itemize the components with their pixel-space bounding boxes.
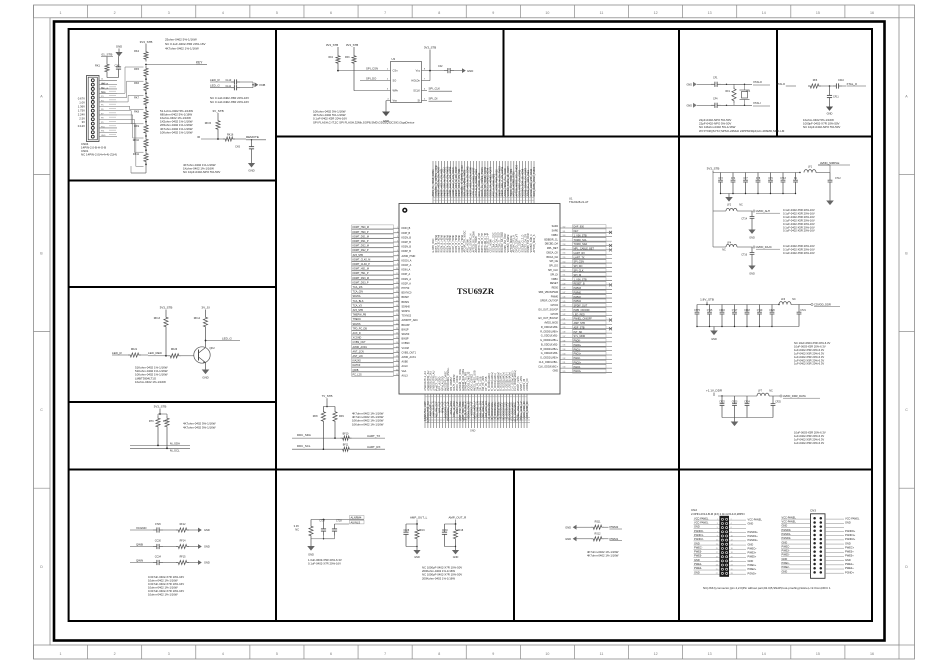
svg-text:SPI_DI: SPI_DI [429, 97, 438, 101]
svg-text:GND: GND [248, 169, 254, 173]
svg-text:01_STB: 01_STB [102, 53, 113, 57]
svg-text:CF18: CF18 [744, 310, 750, 312]
svg-text:3V_STB: 3V_STB [212, 109, 223, 113]
svg-text:0.1uF-0402-X5R 20%-16V: 0.1uF-0402-X5R 20%-16V [783, 218, 815, 222]
svg-text:EX_OUT_BIO/GP: EX_OUT_BIO/GP [538, 317, 558, 320]
svg-text:WYJTXZQSYSY,SPSO-24MHz 24PPM/3: WYJTXZQSYSY,SPSO-24MHz 24PPM/30pF,HC-49S… [699, 129, 785, 133]
svg-text:146: 146 [563, 296, 566, 298]
svg-text:AVDDHT_ADC: AVDDHT_ADC [402, 319, 419, 322]
svg-text:EX_OUT_SIO/GP: EX_OUT_SIO/GP [538, 308, 558, 311]
svg-text:KDCN_A: KDCN_A [402, 259, 412, 262]
svg-text:CT26: CT26 [155, 523, 162, 526]
node KEY [145, 64, 147, 66]
svg-text:PANEL_ON/OFF: PANEL_ON/OFF [574, 318, 593, 321]
svg-text:9: 9 [717, 536, 718, 538]
svg-text:Vss: Vss [393, 99, 398, 103]
spi flash U3 body [391, 62, 422, 103]
svg-text:GND: GND [782, 540, 788, 544]
svg-text:PAD3-: PAD3- [574, 366, 581, 369]
svg-text:4: 4 [731, 523, 732, 525]
svg-text:18: 18 [396, 305, 398, 307]
wire xtali [721, 104, 752, 106]
svg-text:GND: GND [101, 92, 106, 94]
net SPI_DI [422, 100, 428, 102]
svg-text:4: 4 [222, 652, 224, 656]
svg-text:4: 4 [397, 241, 398, 243]
resistor RS30 [310, 520, 312, 525]
svg-text:KDMT_HS0_M: KDMT_HS0_M [353, 226, 369, 229]
svg-text:15: 15 [716, 548, 718, 550]
svg-text:KEY: KEY [196, 61, 203, 65]
svg-text:D: D [40, 565, 43, 569]
svg-text:13: 13 [716, 544, 718, 546]
svg-text:144: 144 [563, 305, 566, 307]
svg-text:PWE3+: PWE3+ [748, 551, 757, 555]
ground audio [310, 545, 312, 548]
svg-text:CT7: CT7 [743, 178, 748, 180]
net LED_RED [141, 354, 148, 356]
svg-text:18: 18 [731, 552, 733, 554]
svg-text:KD2P_A: KD2P_A [402, 282, 412, 285]
svg-text:PWE2+: PWE2+ [845, 566, 854, 570]
svg-text:LED_G: LED_G [210, 84, 221, 88]
svg-text:CLK_ODD/LVBC-: CLK_ODD/LVBC- [539, 361, 558, 364]
svg-text:3V_SI: 3V_SI [201, 306, 209, 310]
svg-text:PWE5+: PWE5+ [845, 554, 854, 558]
svg-text:PWE5+: PWE5+ [748, 555, 757, 559]
ground CT12 [829, 199, 831, 202]
svg-text:SPI FLASH,C-IT,2C SPI FLASH,32: SPI FLASH,C-IT,2C SPI FLASH,32Mb,SOP8,SM… [313, 120, 415, 124]
svg-text:CST5: CST5 [694, 310, 701, 312]
svg-text:NC: NC [739, 204, 743, 207]
wire ddr bottom bus [697, 326, 772, 328]
svg-text:6: 6 [330, 11, 332, 15]
svg-text:1uF-0402-X5R 20%-6.3V: 1uF-0402-X5R 20%-6.3V [794, 351, 824, 355]
svg-text:KDMT_HS1_M: KDMT_HS1_M [353, 268, 369, 271]
svg-text:QWB: QWB [136, 542, 143, 546]
svg-text:G_ODD2/LVB3+: G_ODD2/LVB3+ [540, 357, 558, 360]
svg-text:AVDD_HSID: AVDD_HSID [402, 255, 416, 258]
ground CT14 [751, 228, 753, 231]
svg-text:LED_RED: LED_RED [148, 351, 163, 355]
svg-text:150: 150 [563, 279, 566, 281]
svg-text:PWM2: PWM2 [574, 296, 582, 299]
svg-text:KDIN_A: KDIN_A [402, 269, 411, 272]
svg-text:0.1uF-0402-X5R 20%-16V: 0.1uF-0402-X5R 20%-16V [783, 208, 815, 212]
svg-text:1: 1 [60, 652, 62, 656]
svg-text:7: 7 [397, 254, 398, 256]
svg-text:5: 5 [276, 11, 278, 15]
svg-text:6: 6 [731, 527, 732, 529]
svg-text:136: 136 [563, 340, 566, 342]
svg-text:1uF-0402-X5R 20%-6.3V: 1uF-0402-X5R 20%-6.3V [794, 348, 824, 352]
svg-text:3V3_STB: 3V3_STB [326, 43, 338, 47]
svg-text:2: 2 [731, 519, 732, 521]
svg-text:22: 22 [731, 561, 733, 563]
svg-text:KDIP_B: KDIP_B [402, 232, 411, 235]
wire vcc [422, 70, 445, 72]
svg-text:10uF-0603-X5R 20%-6.3V: 10uF-0603-X5R 20%-6.3V [794, 431, 826, 435]
svg-text:PGND2+: PGND2+ [845, 537, 856, 541]
svg-text:0.1uF-0402-X5R 20%-16V: 0.1uF-0402-X5R 20%-16V [783, 225, 815, 229]
svg-text:SPDIF_OUT: SPDIF_OUT [574, 305, 588, 308]
svg-text:PGND1+: PGND1+ [845, 533, 856, 537]
svg-text:SBK_VBUS/PWM: SBK_VBUS/PWM [538, 291, 558, 294]
svg-text:8: 8 [731, 531, 732, 533]
svg-text:RS12: RS12 [595, 532, 602, 535]
svg-text:PC_L2S: PC_L2S [353, 373, 362, 376]
svg-text:BDYNC0: BDYNC0 [402, 292, 413, 295]
svg-text:1uF-0402-X5R 20%-6.3V: 1uF-0402-X5R 20%-6.3V [794, 441, 824, 445]
svg-text:19: 19 [396, 310, 398, 312]
svg-text:AVDD_DDR_DATA: AVDD_DDR_DATA [783, 394, 806, 398]
svg-text:7: 7 [384, 652, 386, 656]
svg-text:LVDS_GND_00: LVDS_GND_00 [526, 401, 529, 419]
svg-text:PWE2+: PWE2+ [748, 567, 757, 571]
svg-text:GND: GND [414, 556, 420, 559]
svg-text:0.1uF-0402-X5R 20%-16V: 0.1uF-0402-X5R 20%-16V [783, 251, 815, 255]
svg-text:KIA2X0: KIA2X0 [353, 360, 362, 363]
svg-text:CX6: CX6 [235, 146, 240, 149]
wire RF3 to wpn [353, 66, 355, 91]
svg-text:TCA_I2S: TCA_I2S [353, 286, 363, 289]
svg-text:GPIO5: GPIO5 [551, 313, 559, 316]
svg-text:QK2: QK2 [210, 346, 216, 350]
svg-text:KDMT_HS0_P: KDMT_HS0_P [353, 231, 369, 234]
svg-text:161: 161 [563, 231, 566, 233]
svg-text:PAD2-: PAD2- [574, 357, 581, 360]
svg-text:SPI_DI: SPI_DI [574, 274, 582, 277]
svg-text:17: 17 [716, 552, 718, 554]
svg-text:6: 6 [397, 250, 398, 252]
ground xtal2 [829, 102, 831, 107]
svg-text:CT14: CT14 [741, 219, 747, 221]
svg-text:LF1: LF1 [808, 166, 813, 169]
svg-text:140: 140 [563, 323, 566, 325]
svg-text:RK6: RK6 [134, 82, 139, 85]
net QWB [130, 546, 153, 548]
svg-text:16: 16 [396, 296, 398, 298]
wire AMP_OUT_L bottom [406, 546, 417, 548]
svg-text:UART_RX: UART_RX [574, 252, 586, 255]
svg-text:ADF_STB: ADF_STB [574, 326, 585, 329]
net QWN [130, 562, 153, 564]
svg-text:1Kohm-0402 1%-1/16W: 1Kohm-0402 1%-1/16W [135, 380, 166, 384]
svg-text:GND: GND [470, 430, 476, 433]
svg-text:PGND0-: PGND0- [694, 529, 704, 533]
svg-text:3V3_STB: 3V3_STB [353, 254, 364, 257]
svg-text:RESET_B: RESET_B [574, 283, 585, 286]
svg-text:3V3_STB: 3V3_STB [353, 309, 364, 312]
svg-text:HOLDn: HOLDn [411, 79, 420, 83]
svg-text:PWEC-: PWEC- [694, 545, 703, 549]
svg-text:GND: GND [204, 545, 210, 549]
svg-text:LED_G: LED_G [222, 337, 233, 341]
svg-text:SPI_CLK: SPI_CLK [429, 87, 441, 91]
svg-text:10ohm-0402 1%-1/16W: 10ohm-0402 1%-1/16W [148, 593, 178, 597]
svg-text:VCC-PANEL: VCC-PANEL [694, 520, 709, 524]
svg-text:138: 138 [563, 332, 566, 334]
svg-text:19: 19 [716, 556, 718, 558]
svg-text:RK5: RK5 [134, 68, 139, 71]
svg-text:PHY50: PHY50 [402, 287, 410, 290]
svg-text:TCA_BLS: TCA_BLS [353, 300, 364, 303]
net XTAL_O [842, 85, 846, 87]
svg-text:TOMO_SDA: TOMO_SDA [574, 243, 588, 246]
svg-text:SCLK: SCLK [413, 89, 420, 93]
svg-text:R_ODD0/LVB0+: R_ODD0/LVB0+ [540, 330, 558, 333]
svg-text:200Kohm-0402 1%-1/16W: 200Kohm-0402 1%-1/16W [422, 576, 455, 580]
svg-text:KD2N_B: KD2N_B [402, 236, 412, 239]
svg-text:GND: GND [782, 524, 788, 528]
ground QWN filter [198, 560, 202, 565]
svg-text:9: 9 [492, 652, 494, 656]
ground KNB arrow [255, 82, 259, 87]
svg-text:24: 24 [731, 565, 733, 567]
svg-text:KDIN_B: KDIN_B [402, 227, 411, 230]
svg-text:BIN1P: BIN1P [402, 328, 409, 331]
svg-text:TMEPW_PB: TMEPW_PB [353, 314, 367, 317]
svg-text:145: 145 [563, 301, 566, 303]
svg-text:10: 10 [545, 652, 549, 656]
svg-text:NC 0.1uF-0402-X5R 20%-16V: NC 0.1uF-0402-X5R 20%-16V [210, 100, 249, 104]
wire ddrdata top bus [718, 395, 757, 397]
net SPI_CLK [422, 90, 428, 92]
svg-text:QWB: QWB [353, 369, 359, 372]
net CDVDD_DDR [811, 303, 813, 305]
svg-text:SPI_DO: SPI_DO [549, 265, 558, 268]
svg-text:AVDD_ALTI: AVDD_ALTI [756, 209, 770, 213]
svg-text:NC 10uF-0603-X5R 20%-6.3V: NC 10uF-0603-X5R 20%-6.3V [794, 341, 831, 345]
svg-text:RK1: RK1 [95, 64, 101, 68]
svg-text:27: 27 [716, 573, 718, 575]
svg-text:0.12V: 0.12V [78, 124, 85, 128]
svg-text:SDNH0: SDNH0 [402, 305, 411, 308]
svg-text:GND: GND [827, 112, 833, 116]
svg-text:14: 14 [396, 287, 398, 289]
svg-text:SPI_DI: SPI_DI [550, 273, 558, 276]
net UART_TX [352, 437, 386, 439]
svg-text:15: 15 [816, 11, 820, 15]
svg-text:16: 16 [870, 652, 874, 656]
svg-text:1: 1 [717, 519, 718, 521]
svg-text:RF14: RF14 [180, 539, 187, 542]
svg-text:16: 16 [731, 548, 733, 550]
svg-text:3: 3 [397, 236, 398, 238]
svg-text:159: 159 [563, 240, 566, 242]
svg-text:5: 5 [397, 245, 398, 247]
svg-text:PGND2+: PGND2+ [748, 538, 759, 542]
svg-text:7: 7 [384, 11, 386, 15]
svg-text:13: 13 [708, 652, 712, 656]
svg-text:CF4: CF4 [713, 98, 718, 101]
svg-text:AUL3: AUL3 [402, 374, 409, 377]
svg-text:PWM2: PWM2 [610, 525, 619, 529]
svg-text:GND: GND [453, 556, 459, 559]
wire AMP_OUT_R bottom [445, 546, 456, 548]
svg-text:SDV0S: SDV0S [353, 323, 361, 326]
wire avdd rail left [712, 173, 714, 248]
svg-text:LED_R: LED_R [210, 78, 221, 82]
svg-text:SPI_CSN: SPI_CSN [574, 261, 585, 264]
svg-text:SPI_CE: SPI_CE [549, 260, 558, 263]
svg-text:LVDSG_00: LVDSG_00 [526, 378, 529, 391]
CN01 pin stubs [99, 79, 117, 81]
svg-text:2: 2 [397, 231, 398, 233]
svg-text:0.1uF-0402-X5R 20%-16V: 0.1uF-0402-X5R 20%-16V [783, 211, 815, 215]
ground vcc cap [454, 70, 462, 72]
svg-text:PWM0: PWM0 [574, 291, 582, 294]
svg-text:RF8: RF8 [313, 415, 318, 418]
svg-text:GND: GND [202, 376, 208, 380]
svg-text:130: 130 [563, 367, 566, 369]
svg-text:3V3_STB: 3V3_STB [154, 405, 167, 409]
wire to cap CF10 [821, 85, 833, 87]
svg-text:1uF-0402-X5R 20%-6.3V: 1uF-0402-X5R 20%-6.3V [794, 437, 824, 441]
wire left pin rows [352, 225, 419, 378]
svg-text:12: 12 [654, 652, 658, 656]
svg-text:QWN: QWN [136, 558, 143, 562]
svg-text:NC(JXZJ),connector,(pin 4,2.0): NC(JXZJ),connector,(pin 4,2.0)Pin withou… [703, 586, 831, 590]
svg-text:KDIP_A: KDIP_A [402, 273, 411, 276]
ground ir filter [251, 153, 253, 163]
svg-text:CL10: CL10 [226, 79, 232, 82]
svg-text:XTAL_O: XTAL_O [847, 82, 858, 86]
connector CN3 body [811, 514, 826, 579]
svg-text:AYTDB_MD2_S: AYTDB_MD2_S [533, 234, 536, 252]
svg-text:NC 14PIN-2.0(4+4+4)-ZJ(4): NC 14PIN-2.0(4+4+4)-ZJ(4) [81, 153, 117, 157]
svg-text:VDBC: VDBC [551, 278, 558, 281]
svg-text:16: 16 [870, 11, 874, 15]
svg-text:10Kohm-0402 1%-1/16W: 10Kohm-0402 1%-1/16W [160, 130, 193, 134]
svg-text:G_ODD0/LVB1+: G_ODD0/LVB1+ [540, 339, 558, 342]
svg-text:KDCP_A: KDCP_A [402, 264, 412, 267]
svg-text:GND: GND [845, 520, 851, 524]
svg-text:SPI_DO: SPI_DO [366, 77, 377, 81]
svg-text:PGND0+: PGND0+ [748, 530, 759, 534]
svg-text:22: 22 [396, 323, 398, 325]
svg-text:5: 5 [276, 652, 278, 656]
svg-text:PWE3-: PWE3- [782, 549, 790, 553]
svg-text:134: 134 [563, 349, 566, 351]
svg-text:GND: GND [686, 83, 692, 86]
connector CN2 body [720, 516, 730, 577]
svg-text:PAD2+: PAD2+ [574, 361, 582, 364]
net AVDD_DDR_DATA [780, 395, 782, 397]
svg-text:CT28: CT28 [336, 521, 342, 523]
svg-text:CT4: CT4 [731, 178, 736, 180]
svg-text:SYL_MOD: SYL_MOD [574, 335, 586, 338]
svg-text:Vcc: Vcc [416, 69, 421, 73]
svg-text:RK7: RK7 [134, 96, 139, 99]
svg-text:GND: GND [748, 542, 754, 546]
svg-text:WPn: WPn [393, 89, 399, 93]
svg-text:BDU3P: BDU3P [402, 324, 411, 327]
svg-text:BDBDIR_CL: BDBDIR_CL [544, 238, 558, 241]
svg-text:149: 149 [563, 283, 566, 285]
svg-text:3V3_STB: 3V3_STB [140, 40, 153, 44]
ground spi [385, 110, 387, 113]
svg-text:10: 10 [731, 536, 733, 538]
svg-text:131: 131 [563, 362, 566, 364]
svg-text:CF11: CF11 [833, 96, 839, 99]
wire top pin bundle [432, 161, 536, 253]
svg-text:CF2: CF2 [438, 65, 443, 68]
svg-text:RF15: RF15 [180, 555, 187, 558]
svg-text:PWE1-: PWE1- [694, 562, 702, 566]
ground CT16 [751, 264, 753, 267]
svg-text:SPI_DO: SPI_DO [574, 265, 583, 268]
svg-text:GND: GND [116, 45, 122, 49]
svg-text:6: 6 [330, 652, 332, 656]
svg-text:2.0PIN-2X14-B-M (ZJ) 2.0mmX14J: 2.0PIN-2X14-B-M (ZJ) 2.0mmX14JJ,28PIN [691, 512, 744, 516]
svg-text:KDMT_CLK0_P: KDMT_CLK0_P [353, 263, 371, 266]
svg-text:PWEC-: PWEC- [782, 544, 791, 548]
svg-text:NC: NC [792, 298, 796, 301]
svg-text:CT19: CT19 [757, 310, 763, 312]
svg-text:CF10: CF10 [838, 79, 845, 82]
svg-text:AMP_STB: AMP_STB [574, 322, 586, 325]
svg-text:25ohm-0402 5%-1/16W: 25ohm-0402 5%-1/16W [165, 38, 197, 42]
svg-text:141: 141 [563, 318, 566, 320]
svg-text:TSU69ZR: TSU69ZR [457, 286, 495, 296]
ground led [205, 368, 207, 371]
svg-text:U3: U3 [392, 57, 396, 61]
svg-text:NC 10pF-0402-NPO 5%-50V: NC 10pF-0402-NPO 5%-50V [183, 170, 220, 174]
svg-text:143: 143 [563, 310, 566, 312]
net AVDD_DAJC [753, 246, 755, 248]
svg-text:RT3: RT3 [149, 420, 154, 423]
svg-text:LF6: LF6 [781, 298, 786, 301]
svg-text:RK4: RK4 [134, 50, 139, 53]
svg-text:137: 137 [563, 336, 566, 338]
svg-text:CT12: CT12 [835, 178, 841, 180]
wire holdn [422, 80, 431, 82]
svg-text:XTALO: XTALO [753, 80, 763, 84]
svg-text:GND: GND [782, 569, 788, 573]
svg-text:C: C [905, 408, 908, 412]
svg-text:139: 139 [563, 327, 566, 329]
svg-text:3: 3 [168, 11, 170, 15]
svg-text:SAR0: SAR0 [552, 230, 559, 233]
svg-text:PAD3+: PAD3+ [574, 370, 582, 373]
svg-text:1uF-0402-X5R 20%-6.3V: 1uF-0402-X5R 20%-6.3V [794, 434, 824, 438]
wire bus CN01 to ladder [117, 92, 125, 94]
svg-text:DDR_DATA_VREF_TMDS: DDR_DATA_VREF_TMDS [533, 167, 536, 197]
svg-text:15: 15 [396, 291, 398, 293]
svg-text:25: 25 [716, 569, 718, 571]
svg-text:CT16: CT16 [741, 255, 747, 257]
svg-text:PWE2-: PWE2- [782, 565, 790, 569]
svg-text:0.1uF-0402-X5R 20%-16V: 0.1uF-0402-X5R 20%-16V [783, 222, 815, 226]
svg-text:M_SCL: M_SCL [170, 449, 180, 453]
net XCGND [130, 529, 153, 531]
svg-text:RK21: RK21 [131, 348, 138, 351]
wire audio top [311, 519, 324, 521]
svg-text:KEY: KEY [574, 230, 579, 233]
svg-text:DATK0: DATK0 [353, 364, 361, 367]
svg-text:CC34: CC34 [155, 555, 162, 558]
svg-text:LED_R: LED_R [101, 84, 108, 86]
svg-text:17: 17 [396, 300, 398, 302]
svg-text:SDV0A: SDV0A [353, 295, 361, 298]
svg-text:CT13: CT13 [780, 178, 786, 180]
svg-text:0.1uF-0402-X5R 20%-16V: 0.1uF-0402-X5R 20%-16V [783, 215, 815, 219]
svg-text:KNB: KNB [260, 83, 266, 87]
svg-text:8: 8 [438, 652, 440, 656]
svg-text:RES0: RES0 [552, 287, 559, 290]
svg-text:+1.1V_DDR: +1.1V_DDR [706, 389, 723, 393]
